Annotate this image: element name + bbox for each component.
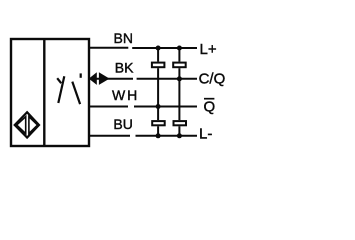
svg-text:BU: BU [113,116,132,132]
svg-text:WH: WH [112,87,139,103]
Qbar overline [204,98,214,100]
junction dot BU left [156,133,161,138]
junction dot BK right [177,76,182,81]
load lower-left [152,121,165,125]
svg-text:BN: BN [114,30,133,46]
bus wire left vertical [157,48,159,136]
junction dot BU right [177,133,182,138]
junction dot BN right [177,46,182,51]
svg-text:BK: BK [115,59,134,75]
sensor body outline [11,39,89,146]
wire WH [89,106,197,108]
svg-text:L-: L- [199,126,212,143]
svg-text:L+: L+ [200,41,217,58]
proximity sensor diamond symbol [15,112,39,137]
wire BN [89,47,197,49]
svg-text:C/Q: C/Q [199,71,226,88]
wire BU [89,135,197,137]
load lower-right [174,121,187,125]
diamond inner left triangle [17,117,26,134]
sensor body divider [43,39,45,146]
load upper-right [173,63,186,68]
switch contact NC (left) [57,76,64,103]
connector arrow on BK [89,72,110,85]
bus wire right vertical [178,48,180,136]
wire BK [89,78,197,80]
load upper-left [152,63,165,68]
svg-text:Q: Q [204,99,216,116]
diamond inner right triangle [29,117,38,134]
switch contact NO (right) [72,73,80,104]
junction dot BN left [156,46,161,51]
junction dot WH left [156,104,161,109]
